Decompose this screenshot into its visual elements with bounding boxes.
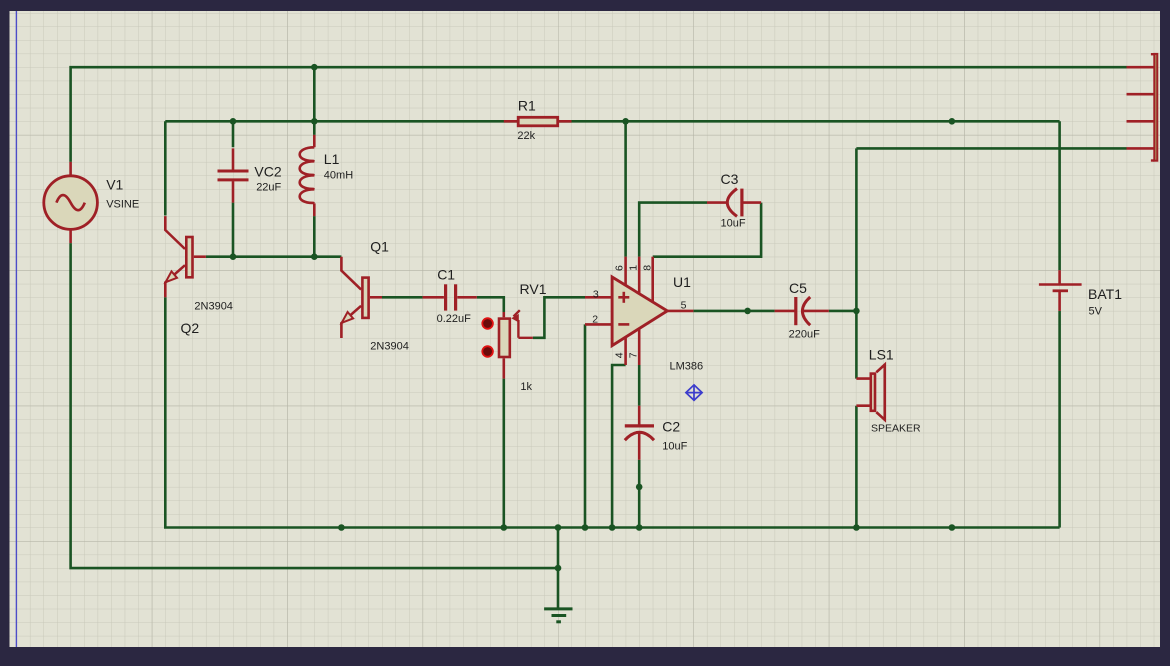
svg-text:L1: L1 xyxy=(324,151,340,167)
svg-text:40mH: 40mH xyxy=(324,170,353,182)
svg-text:10uF: 10uF xyxy=(721,218,746,230)
svg-text:SPEAKER: SPEAKER xyxy=(871,423,921,435)
svg-text:U1: U1 xyxy=(673,274,691,290)
svg-text:4: 4 xyxy=(614,352,626,358)
svg-text:C2: C2 xyxy=(662,419,680,435)
svg-text:1k: 1k xyxy=(520,381,532,393)
svg-text:R1: R1 xyxy=(518,98,536,114)
svg-text:22uF: 22uF xyxy=(256,182,281,194)
svg-text:V1: V1 xyxy=(106,177,123,193)
svg-text:C5: C5 xyxy=(789,280,807,296)
svg-text:5V: 5V xyxy=(1089,306,1103,318)
svg-text:LM386: LM386 xyxy=(670,361,704,373)
svg-text:8: 8 xyxy=(642,265,654,271)
svg-text:0.22uF: 0.22uF xyxy=(437,313,472,325)
svg-text:RV1: RV1 xyxy=(520,281,547,297)
svg-text:VC2: VC2 xyxy=(254,164,281,180)
svg-text:6: 6 xyxy=(613,265,625,271)
svg-text:C1: C1 xyxy=(437,267,455,283)
svg-text:C3: C3 xyxy=(721,171,739,187)
svg-text:VSINE: VSINE xyxy=(106,199,139,211)
svg-text:LS1: LS1 xyxy=(869,347,894,363)
svg-text:2: 2 xyxy=(592,314,598,326)
svg-text:22k: 22k xyxy=(517,130,535,142)
svg-text:BAT1: BAT1 xyxy=(1088,286,1122,302)
svg-text:2N3904: 2N3904 xyxy=(370,341,409,353)
svg-text:220uF: 220uF xyxy=(789,329,820,341)
svg-text:3: 3 xyxy=(593,289,599,301)
svg-text:7: 7 xyxy=(628,352,640,358)
svg-text:2N3904: 2N3904 xyxy=(194,301,233,313)
svg-text:Q2: Q2 xyxy=(181,320,200,336)
svg-text:1: 1 xyxy=(628,265,640,271)
svg-text:5: 5 xyxy=(681,300,687,312)
svg-text:Q1: Q1 xyxy=(370,239,389,255)
svg-text:10uF: 10uF xyxy=(662,441,687,453)
